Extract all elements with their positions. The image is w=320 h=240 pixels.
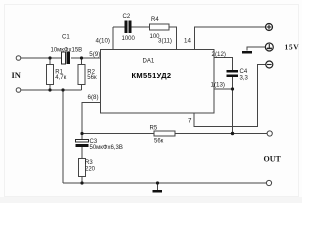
node rail drop bbox=[61, 88, 64, 91]
wire IN+ to C1 bbox=[21, 57, 63, 59]
wire R1 bottom lead bbox=[49, 85, 51, 91]
svg-text:10мкФх15В: 10мкФх15В bbox=[51, 48, 83, 54]
svg-text:6(8): 6(8) bbox=[88, 94, 99, 101]
wire feedback node to pin 6(8) bbox=[82, 103, 101, 140]
svg-text:C4: C4 bbox=[240, 69, 248, 75]
wire R2 bottom lead bbox=[81, 85, 83, 91]
wire earth branch of 15V terminal bbox=[247, 47, 266, 51]
resistor R3 bbox=[79, 159, 86, 177]
wire pin 1(13) bbox=[214, 88, 233, 90]
svg-text:C2: C2 bbox=[123, 14, 131, 20]
wire pin 4(10) riser bbox=[112, 27, 114, 50]
wire pin 2(12) to C4 bbox=[214, 58, 233, 71]
terminal minus bbox=[266, 61, 273, 68]
node ground symbol bbox=[156, 181, 159, 184]
capacitor C3 (polarized) bbox=[76, 140, 89, 148]
capacitor C2 bbox=[125, 21, 132, 34]
node R3 ground bbox=[80, 181, 83, 184]
node pin 1(13) bbox=[231, 87, 234, 90]
svg-text:15V: 15V bbox=[285, 43, 300, 52]
svg-text:14: 14 bbox=[184, 38, 191, 45]
wire IN- rail bbox=[21, 89, 82, 91]
resistor R5 bbox=[154, 131, 175, 136]
svg-text:R5: R5 bbox=[150, 126, 158, 132]
svg-text:C1: C1 bbox=[62, 35, 70, 41]
svg-text:2(12): 2(12) bbox=[212, 51, 226, 58]
terminal OUT top bbox=[267, 131, 272, 136]
wire C1 to pin 5(9) bbox=[71, 57, 101, 59]
ground symbol at 15V terminal bbox=[242, 51, 252, 54]
wire R4 to pin 3(11) riser bbox=[169, 27, 177, 50]
wire C2 to R4 bbox=[132, 26, 150, 28]
svg-text:КМ551УД2: КМ551УД2 bbox=[132, 71, 172, 80]
ground stub on rail bbox=[157, 183, 159, 190]
svg-text:3(11): 3(11) bbox=[158, 38, 172, 45]
wire R2 top lead bbox=[81, 58, 83, 65]
capacitor C4 bbox=[227, 70, 239, 77]
svg-text:4(10): 4(10) bbox=[96, 38, 110, 45]
svg-text:4,7к: 4,7к bbox=[55, 75, 66, 81]
svg-text:220: 220 bbox=[85, 167, 96, 173]
wire R1 top lead bbox=[49, 58, 51, 65]
svg-text:IN: IN bbox=[12, 70, 22, 80]
wire pin 7 to minus terminal bbox=[194, 65, 267, 127]
resistor R2 bbox=[78, 65, 85, 85]
svg-text:56к: 56к bbox=[87, 75, 97, 81]
svg-text:5(9): 5(9) bbox=[89, 51, 100, 58]
node output junction bbox=[231, 132, 234, 135]
wire output drop bbox=[232, 89, 234, 134]
node R2 top bbox=[80, 56, 83, 59]
terminal chassis 15V bbox=[265, 43, 273, 51]
junction node dots bbox=[48, 56, 234, 184]
wire C3 to R3 bbox=[81, 147, 83, 159]
terminal IN top bbox=[16, 56, 21, 61]
node R1 top bbox=[48, 56, 51, 59]
terminal IN bottom bbox=[16, 88, 21, 93]
svg-text:7: 7 bbox=[188, 118, 192, 125]
node R1 bottom bbox=[48, 88, 51, 91]
terminal OUT bottom bbox=[266, 180, 271, 185]
terminal plus bbox=[266, 24, 273, 31]
svg-text:1000: 1000 bbox=[122, 36, 136, 42]
wire ground drop from IN- rail bbox=[62, 90, 64, 183]
resistor R1 bbox=[47, 65, 54, 85]
svg-text:OUT: OUT bbox=[264, 155, 282, 164]
svg-text:DA1: DA1 bbox=[143, 59, 155, 65]
wire pin 14 to plus terminal bbox=[195, 27, 267, 50]
svg-text:50мкФх6,3В: 50мкФх6,3В bbox=[90, 145, 123, 151]
svg-text:R4: R4 bbox=[151, 17, 159, 23]
resistor R4 bbox=[150, 24, 170, 30]
ground symbol on bottom rail bbox=[153, 190, 163, 193]
wire C4 to pin 1(13) node bbox=[232, 77, 234, 89]
svg-text:56к: 56к bbox=[154, 139, 164, 145]
wire R5 to OUT bbox=[175, 133, 268, 135]
svg-text:1(13): 1(13) bbox=[211, 82, 225, 89]
wire R3 to ground rail bbox=[81, 177, 83, 184]
op-amp U1 DA1 body bbox=[101, 50, 215, 114]
wire bottom ground rail bbox=[63, 182, 267, 184]
capacitor C1 (polarized, series in top wire) bbox=[62, 52, 71, 65]
svg-text:R3: R3 bbox=[85, 160, 93, 166]
node feedback / R5 bbox=[80, 132, 83, 135]
svg-text:3,3: 3,3 bbox=[240, 76, 249, 82]
wire pin4 to C2 bbox=[113, 26, 125, 28]
wire node to R5 bbox=[82, 133, 154, 135]
